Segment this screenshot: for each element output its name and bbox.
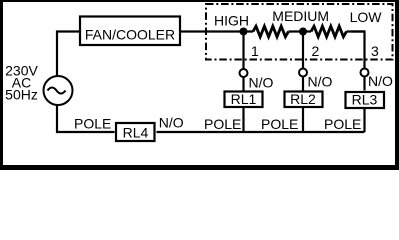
svg-text:RL4: RL4 (123, 125, 149, 141)
relay RL2 (285, 91, 323, 107)
relay RL1 (225, 91, 263, 107)
wire: AC source bottom to pole bus (57, 105, 115, 132)
relay RL3 (346, 92, 385, 109)
wire: R2 to node 3 corner (351, 32, 364, 69)
svg-text:POLE: POLE (204, 116, 241, 132)
wire: contact to relay RL1 (242, 77, 244, 91)
wire: contact to relay RL3 (363, 76, 365, 91)
svg-text:POLE: POLE (261, 116, 298, 132)
N/O contact terminal of RL2 (299, 69, 307, 77)
resistor R1 (HIGH to MEDIUM) (244, 26, 304, 37)
wire: node 2 down to contact RL2 (302, 32, 304, 69)
wire: contact to relay RL2 (302, 76, 304, 91)
wire: fan/cooler to node 1 (181, 30, 244, 32)
svg-text:HIGH: HIGH (214, 13, 249, 29)
svg-text:RL2: RL2 (290, 91, 316, 107)
svg-text:N/O: N/O (249, 75, 274, 91)
fan/cooler load (80, 17, 180, 46)
relay RL4 (116, 123, 155, 141)
value label 230V AC 50Hz (5, 63, 38, 103)
svg-text:N/O: N/O (368, 73, 393, 89)
svg-text:50Hz: 50Hz (5, 87, 38, 103)
wire: AC source top to fan/cooler (57, 32, 79, 77)
svg-text:1: 1 (251, 43, 259, 59)
wire: relay RL3 to pole bus (363, 109, 365, 133)
svg-text:POLE: POLE (324, 116, 361, 132)
N/O contact terminal of RL1 (240, 69, 248, 77)
svg-text:N/O: N/O (308, 74, 333, 90)
wire: relay RL1 to pole bus (242, 108, 244, 132)
svg-text:3: 3 (371, 43, 379, 59)
svg-text:N/O: N/O (159, 115, 184, 131)
junction node 1 (HIGH) (240, 28, 248, 36)
AC source V1 230V 50Hz (44, 76, 73, 105)
resistor R2 (MEDIUM to LOW) (303, 26, 365, 37)
svg-text:RL1: RL1 (231, 91, 257, 107)
svg-text:FAN/COOLER: FAN/COOLER (85, 27, 175, 43)
wire: relay RL2 to pole bus (302, 108, 304, 132)
wire: pole bus RL4 to RL3 (157, 131, 365, 133)
N/O contact terminal of RL3 (361, 69, 369, 77)
speed selector enclosure (dash-dot box) (206, 4, 393, 60)
svg-text:POLE: POLE (74, 116, 111, 132)
svg-text:LOW: LOW (350, 9, 383, 25)
svg-text:RL3: RL3 (352, 92, 378, 108)
wire: node 1 down to contact RL1 (242, 32, 244, 70)
junction node 2 (MEDIUM) (299, 28, 307, 36)
svg-text:2: 2 (312, 43, 320, 59)
svg-text:MEDIUM: MEDIUM (272, 8, 329, 24)
